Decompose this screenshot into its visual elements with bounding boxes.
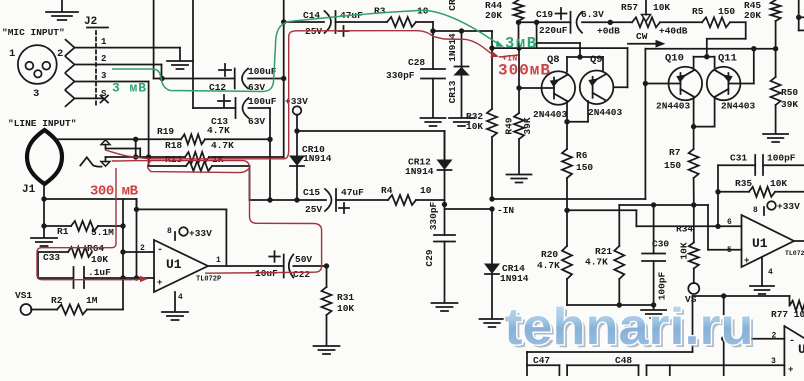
svg-text:2: 2: [772, 332, 777, 341]
R6 labels: [576, 150, 593, 173]
red arrowhead at U1 +input: [140, 276, 148, 282]
svg-text:10K: 10K: [91, 254, 108, 265]
C48 label: [615, 355, 632, 366]
red arrowhead at +IN: [490, 51, 500, 60]
svg-text:tehnari.ru: tehnari.ru: [505, 298, 754, 356]
svg-text:2N4403: 2N4403: [533, 109, 568, 120]
J2 pin numbers: [101, 37, 107, 99]
junction R21 bottom: [617, 302, 622, 307]
green arrowhead: [495, 40, 506, 49]
junction R19/col: [267, 137, 272, 142]
resistor R50: [771, 49, 781, 133]
wire C19-R57: [582, 21, 632, 23]
svg-text:3 мВ: 3 мВ: [112, 81, 146, 96]
red trace R13 loop lower: [148, 161, 250, 173]
svg-text:10uF: 10uF: [255, 268, 278, 279]
svg-text:3мВ: 3мВ: [505, 35, 536, 53]
wire -IN rail: [492, 198, 645, 200]
junction x136 bottom: [134, 275, 139, 280]
capacitor C13: [218, 95, 249, 118]
wire emitters tie 2: [694, 97, 715, 127]
svg-text:2: 2: [101, 54, 106, 64]
junction pin6: [715, 224, 720, 229]
R4 labels: [381, 185, 432, 196]
wire +in rail left: [492, 47, 628, 49]
junction CR10col/C15: [294, 197, 299, 202]
C28 labels: [386, 57, 425, 81]
connector J1 jack lens: [27, 130, 62, 184]
wire y31: [433, 31, 492, 48]
wire C48 to U3 pin2: [693, 296, 790, 376]
ground (pin1): [167, 61, 193, 69]
svg-text:C19: C19: [536, 9, 553, 20]
transistor Q10: [669, 67, 703, 101]
wire C15-R4: [336, 199, 388, 201]
J2 contact chevrons: [66, 40, 75, 107]
R3 labels: [374, 6, 429, 17]
transistor Q9: [580, 71, 614, 105]
svg-text:"MIC INPUT": "MIC INPUT": [2, 27, 65, 38]
Q11 label: [718, 53, 737, 65]
wire U1b output: [794, 240, 804, 242]
junction CR10 top: [294, 128, 299, 133]
C22 labels: [255, 254, 312, 280]
junction pin3/line-in: [146, 154, 151, 159]
junction Q10Q11 emitters: [691, 124, 696, 129]
U1b pin5 label: [727, 246, 749, 266]
svg-text:C33: C33: [43, 252, 60, 263]
C33 labels: [43, 252, 111, 278]
wire C30 bottom: [653, 261, 655, 309]
svg-text:6: 6: [727, 218, 732, 227]
svg-text:1: 1: [101, 37, 107, 47]
resistor R18: [185, 152, 209, 162]
svg-text:2: 2: [57, 48, 63, 60]
wire CR13 bottom: [461, 75, 463, 117]
U1 pin8: [167, 227, 188, 240]
svg-text:100pF: 100pF: [767, 153, 796, 164]
svg-text:1N914: 1N914: [447, 33, 458, 62]
ground (R50): [763, 134, 788, 142]
junction R64 node: [120, 249, 125, 254]
svg-text:2N4403: 2N4403: [721, 101, 756, 112]
svg-text:25V: 25V: [305, 26, 322, 37]
junction C19 left: [534, 20, 539, 25]
svg-text:R49: R49: [504, 117, 515, 134]
ground (C28): [421, 118, 446, 126]
wire R3 right: [416, 22, 433, 31]
connector J2 XLR shell: [18, 45, 57, 84]
junction J1 node: [41, 196, 46, 201]
svg-text:100uF: 100uF: [248, 96, 277, 107]
diode CR12: [438, 131, 452, 170]
wire Q8 emitter: [566, 101, 568, 122]
svg-text:U1: U1: [166, 257, 182, 272]
U1 pin4: [175, 292, 183, 311]
svg-text:50V: 50V: [295, 254, 312, 265]
svg-text:R18: R18: [165, 140, 182, 151]
capacitor C29 column: [444, 131, 446, 235]
R19 labels: [157, 125, 230, 137]
svg-text:25V: 25V: [305, 204, 322, 215]
svg-text:4: 4: [178, 293, 183, 302]
Q8 2N4403: [533, 109, 568, 120]
junction -IN a: [489, 196, 494, 201]
svg-text:1N914: 1N914: [303, 153, 332, 164]
svg-text:R6: R6: [576, 150, 588, 161]
CR12 labels: [405, 157, 434, 178]
CW arrow: [628, 31, 664, 47]
red trace R13 loop upper: [112, 161, 322, 274]
svg-text:4.7K: 4.7K: [585, 257, 608, 268]
label LINE INPUT: [8, 118, 76, 129]
svg-text:150: 150: [576, 162, 593, 173]
CR13 rotated labels: [447, 33, 458, 103]
wire CR10 bottom: [296, 166, 298, 200]
junction R57 left: [608, 20, 613, 25]
wire R1 right: [98, 225, 123, 227]
capacitor C19: [556, 8, 583, 33]
svg-text:C22: C22: [293, 269, 310, 280]
wire C14 row: [284, 21, 324, 23]
resistor R6: [562, 122, 572, 210]
svg-text:8: 8: [167, 227, 172, 236]
svg-text:100uF: 100uF: [248, 66, 277, 77]
R35 labels: [735, 178, 787, 189]
Q9 label: [590, 54, 603, 66]
svg-text:47uF: 47uF: [341, 187, 364, 198]
svg-text:Q10: Q10: [665, 53, 684, 65]
C19 labels: [536, 9, 604, 36]
label -IN: [497, 205, 514, 216]
wire col x283: [283, 0, 285, 157]
svg-text:R50: R50: [781, 87, 798, 98]
junction -in link: [489, 206, 494, 211]
R44 labels: [485, 0, 502, 21]
R77 label: [771, 309, 804, 320]
resistor R77: [790, 296, 804, 311]
svg-text:220uF: 220uF: [539, 25, 568, 36]
svg-text:3: 3: [101, 71, 106, 81]
capacitor C22: [269, 251, 293, 277]
red trace VS/C33 loop: [37, 168, 142, 280]
U1 +33V label: [189, 228, 212, 239]
wire C33 to +in: [84, 277, 154, 279]
svg-text:+40dB: +40dB: [659, 26, 688, 37]
wire C22 right: [293, 265, 326, 267]
svg-text:R20: R20: [541, 249, 558, 260]
wire pin1: [75, 48, 181, 60]
svg-text:CR: CR: [447, 0, 458, 11]
svg-text:1N914: 1N914: [500, 273, 529, 284]
connector J2 tick: [87, 27, 108, 29]
wire R31 bottom: [326, 315, 328, 345]
ground (U1): [162, 312, 188, 320]
wire emitters tie: [567, 101, 588, 122]
Q9 2N4403: [588, 107, 623, 118]
J1 tip contact arrow: [101, 140, 110, 149]
capacitor C31: [718, 155, 804, 175]
resistor R3: [387, 17, 416, 27]
junction R44 bottom: [516, 20, 521, 25]
svg-text:CR13: CR13: [447, 80, 458, 103]
capacitor box C47 C48 top: [527, 352, 693, 376]
wire R2 right: [87, 278, 123, 310]
CR10 labels: [302, 144, 332, 164]
svg-text:R1: R1: [57, 226, 69, 237]
svg-text:63V: 63V: [248, 116, 265, 127]
capacitor partial third: [669, 365, 671, 376]
labels dB: [597, 26, 688, 37]
R20 labels: [537, 249, 560, 271]
wire J1 to output switch: [44, 199, 226, 209]
junction C14 node: [281, 19, 286, 24]
wire mic shield vertical: [154, 0, 235, 79]
svg-text:+: +: [744, 256, 749, 266]
svg-text:5: 5: [727, 246, 732, 255]
junction C13col/C15: [267, 197, 272, 202]
capacitor C12: [219, 64, 248, 89]
junction rail R45: [773, 46, 778, 51]
svg-text:"LINE INPUT": "LINE INPUT": [8, 118, 76, 129]
R13 labels: [165, 154, 224, 165]
svg-text:C29: C29: [424, 249, 435, 266]
U1 pin2 label: [140, 244, 163, 256]
junction Q8 base: [516, 85, 521, 90]
wire C12 to node: [248, 78, 284, 80]
wire bridge Q8Q9: [567, 57, 603, 72]
svg-text:R21: R21: [595, 246, 612, 257]
svg-text:10K: 10K: [770, 178, 787, 189]
svg-text:U: U: [798, 342, 804, 357]
svg-text:-: -: [789, 336, 795, 347]
capacitor C48: [639, 365, 647, 376]
svg-text:R4: R4: [381, 185, 393, 196]
junction U3 pin2: [721, 336, 726, 341]
svg-text:2N4403: 2N4403: [656, 101, 691, 112]
diode CR10: [290, 156, 304, 166]
svg-text:4.7K: 4.7K: [211, 140, 234, 151]
wire pin S: [75, 97, 104, 99]
svg-text:-: -: [157, 245, 163, 256]
resistor R7: [689, 127, 699, 205]
R57 labels: [621, 2, 670, 13]
Q10 label: [665, 53, 684, 65]
junction +in rail: [489, 45, 494, 50]
wire col x136: [136, 199, 138, 278]
U1b pin6 label: [727, 218, 732, 227]
svg-text:5.1M: 5.1M: [91, 227, 114, 238]
wire bridge Q10Q11: [694, 57, 715, 68]
C30 labels: [652, 239, 669, 301]
wire col x645: [644, 49, 646, 199]
junction Q10 base: [643, 81, 648, 86]
svg-text:R7: R7: [669, 147, 681, 158]
watermark tehnari.ru: [505, 298, 757, 359]
wire tip to R19: [57, 138, 181, 140]
R32 labels: [466, 111, 483, 132]
wire Q9 collector: [613, 48, 627, 87]
wire R64 left loop: [38, 252, 73, 278]
svg-text:39K: 39K: [781, 99, 798, 110]
junction R34 top: [691, 202, 696, 207]
diode CR14: [485, 264, 499, 274]
wire U3 pin2 row: [724, 338, 785, 340]
ground (top-left above J2): [46, 0, 78, 20]
capacitor C29: [434, 235, 455, 242]
resistor R2: [57, 305, 87, 315]
wire +33V down: [296, 115, 298, 156]
svg-text:Q11: Q11: [718, 53, 737, 65]
resistor R31: [322, 287, 332, 315]
terminal VS: [688, 283, 699, 294]
ground (C29): [432, 303, 458, 311]
junction C33/col: [120, 275, 125, 280]
wire C15 row: [250, 199, 327, 201]
junction bridge Q10Q11: [704, 54, 709, 59]
R31 labels: [337, 292, 354, 314]
wire R31 top: [326, 266, 328, 287]
wire R49 col: [518, 48, 520, 113]
svg-text:1: 1: [216, 256, 221, 265]
wire R64 row: [123, 251, 154, 253]
transistor Q11: [707, 67, 741, 101]
capacitor C15: [325, 189, 349, 213]
svg-text:4.7K: 4.7K: [207, 125, 230, 136]
U1 plus label: [157, 278, 162, 288]
wire C19 col: [536, 22, 538, 48]
ground (J1): [31, 226, 57, 246]
wire R18 right: [209, 156, 284, 158]
resistor R20: [562, 210, 572, 305]
Q8 label: [547, 54, 560, 66]
wire ring jog: [106, 149, 141, 158]
wire 220u row: [519, 21, 571, 23]
wire C13 to R19 column: [249, 108, 271, 200]
junction pin6 col top: [715, 189, 720, 194]
wire R5 right jog: [707, 22, 746, 56]
svg-text:R31: R31: [337, 292, 354, 303]
R5 labels: [692, 6, 735, 17]
wire R57-R5: [660, 21, 702, 23]
wire Q10 base: [645, 83, 680, 85]
resistor R19: [181, 134, 205, 144]
junction (pin2/C12): [159, 76, 164, 81]
wire R4 right: [416, 199, 445, 201]
U3 pin labels: [771, 332, 777, 367]
svg-text:+33V: +33V: [777, 201, 800, 212]
svg-text:+: +: [157, 278, 162, 288]
svg-text:VS1: VS1: [15, 290, 32, 301]
R7 labels: [664, 147, 681, 171]
svg-text:6.3V: 6.3V: [581, 9, 604, 20]
svg-text:1N914: 1N914: [405, 166, 434, 177]
junction R49 top: [516, 45, 521, 50]
resistor R34: [689, 205, 699, 283]
wire y43 feed: [537, 43, 580, 57]
svg-text:+33V: +33V: [189, 228, 212, 239]
svg-text:10K: 10K: [653, 2, 670, 13]
ground (U1b): [750, 286, 774, 294]
wire Q8 base: [519, 87, 554, 89]
svg-text:C15: C15: [303, 187, 320, 198]
svg-text:R57: R57: [621, 2, 638, 13]
wire Q11 base: [728, 49, 753, 84]
svg-text:3: 3: [33, 88, 39, 100]
resistor R44: [514, 0, 524, 48]
wire pin3: [75, 82, 149, 158]
svg-text:100pF: 100pF: [657, 271, 668, 300]
wire CR13 stub: [461, 31, 463, 67]
junction R4/C29: [442, 202, 447, 207]
svg-text:TL072: TL072: [785, 250, 804, 257]
wire CR14 stub: [491, 209, 493, 264]
svg-text:2: 2: [140, 244, 145, 253]
C31 labels: [730, 153, 796, 164]
svg-text:150: 150: [664, 160, 681, 171]
resistor R4: [388, 195, 416, 205]
op-amp U3 partial: [784, 326, 804, 376]
op-amp U1 second: [742, 215, 795, 267]
wire col x228: [225, 209, 227, 266]
U1 pin1 label: [216, 256, 221, 265]
no-connect X: [101, 96, 109, 103]
junction C12 node: [281, 76, 286, 81]
junction rail Q11: [751, 46, 756, 51]
junction C28 top: [430, 28, 435, 33]
wire R1 left: [44, 225, 71, 227]
CR14 labels: [500, 263, 529, 284]
ground (R49): [507, 175, 532, 183]
svg-text:1: 1: [9, 48, 15, 60]
R64 labels: [87, 243, 108, 265]
junction pin2 col top: [721, 293, 726, 298]
junction R1 left: [41, 223, 46, 228]
op-amp U1: [154, 240, 208, 292]
wire J1 tip down: [43, 184, 45, 226]
rotated partial label top: [447, 0, 458, 11]
junction CR13 top: [459, 28, 464, 33]
wire Q10 emitter: [693, 97, 695, 127]
capacitor C30: [642, 205, 665, 261]
svg-text:R13: R13: [165, 154, 182, 165]
svg-text:20K: 20K: [485, 10, 502, 21]
svg-text:4.7K: 4.7K: [537, 260, 560, 271]
wire pin6 col: [717, 165, 719, 226]
svg-text:1K: 1K: [212, 154, 224, 165]
C29 rotated label: [424, 249, 435, 266]
svg-text:R64: R64: [87, 243, 104, 254]
svg-text:.1uF: .1uF: [88, 267, 111, 278]
R34 labels: [676, 224, 693, 260]
XLR pin circles: [26, 62, 51, 78]
wire R13 right: [212, 166, 250, 200]
junction R1/col: [120, 223, 125, 228]
C47 label: [533, 355, 550, 366]
junction R20 top: [564, 208, 569, 213]
svg-text:300мВ: 300мВ: [498, 62, 550, 80]
wire CR10-CR12 rail: [297, 130, 445, 132]
ground (C30): [641, 310, 666, 318]
svg-text:10: 10: [420, 185, 432, 196]
svg-text:150: 150: [718, 6, 735, 17]
resistor R21: [614, 205, 624, 305]
U1b pin8: [753, 201, 776, 215]
wire top right corner stub: [799, 0, 804, 30]
svg-text:Q9: Q9: [590, 54, 603, 66]
junction C30 top: [651, 202, 656, 207]
U1b +33V label: [777, 201, 800, 212]
